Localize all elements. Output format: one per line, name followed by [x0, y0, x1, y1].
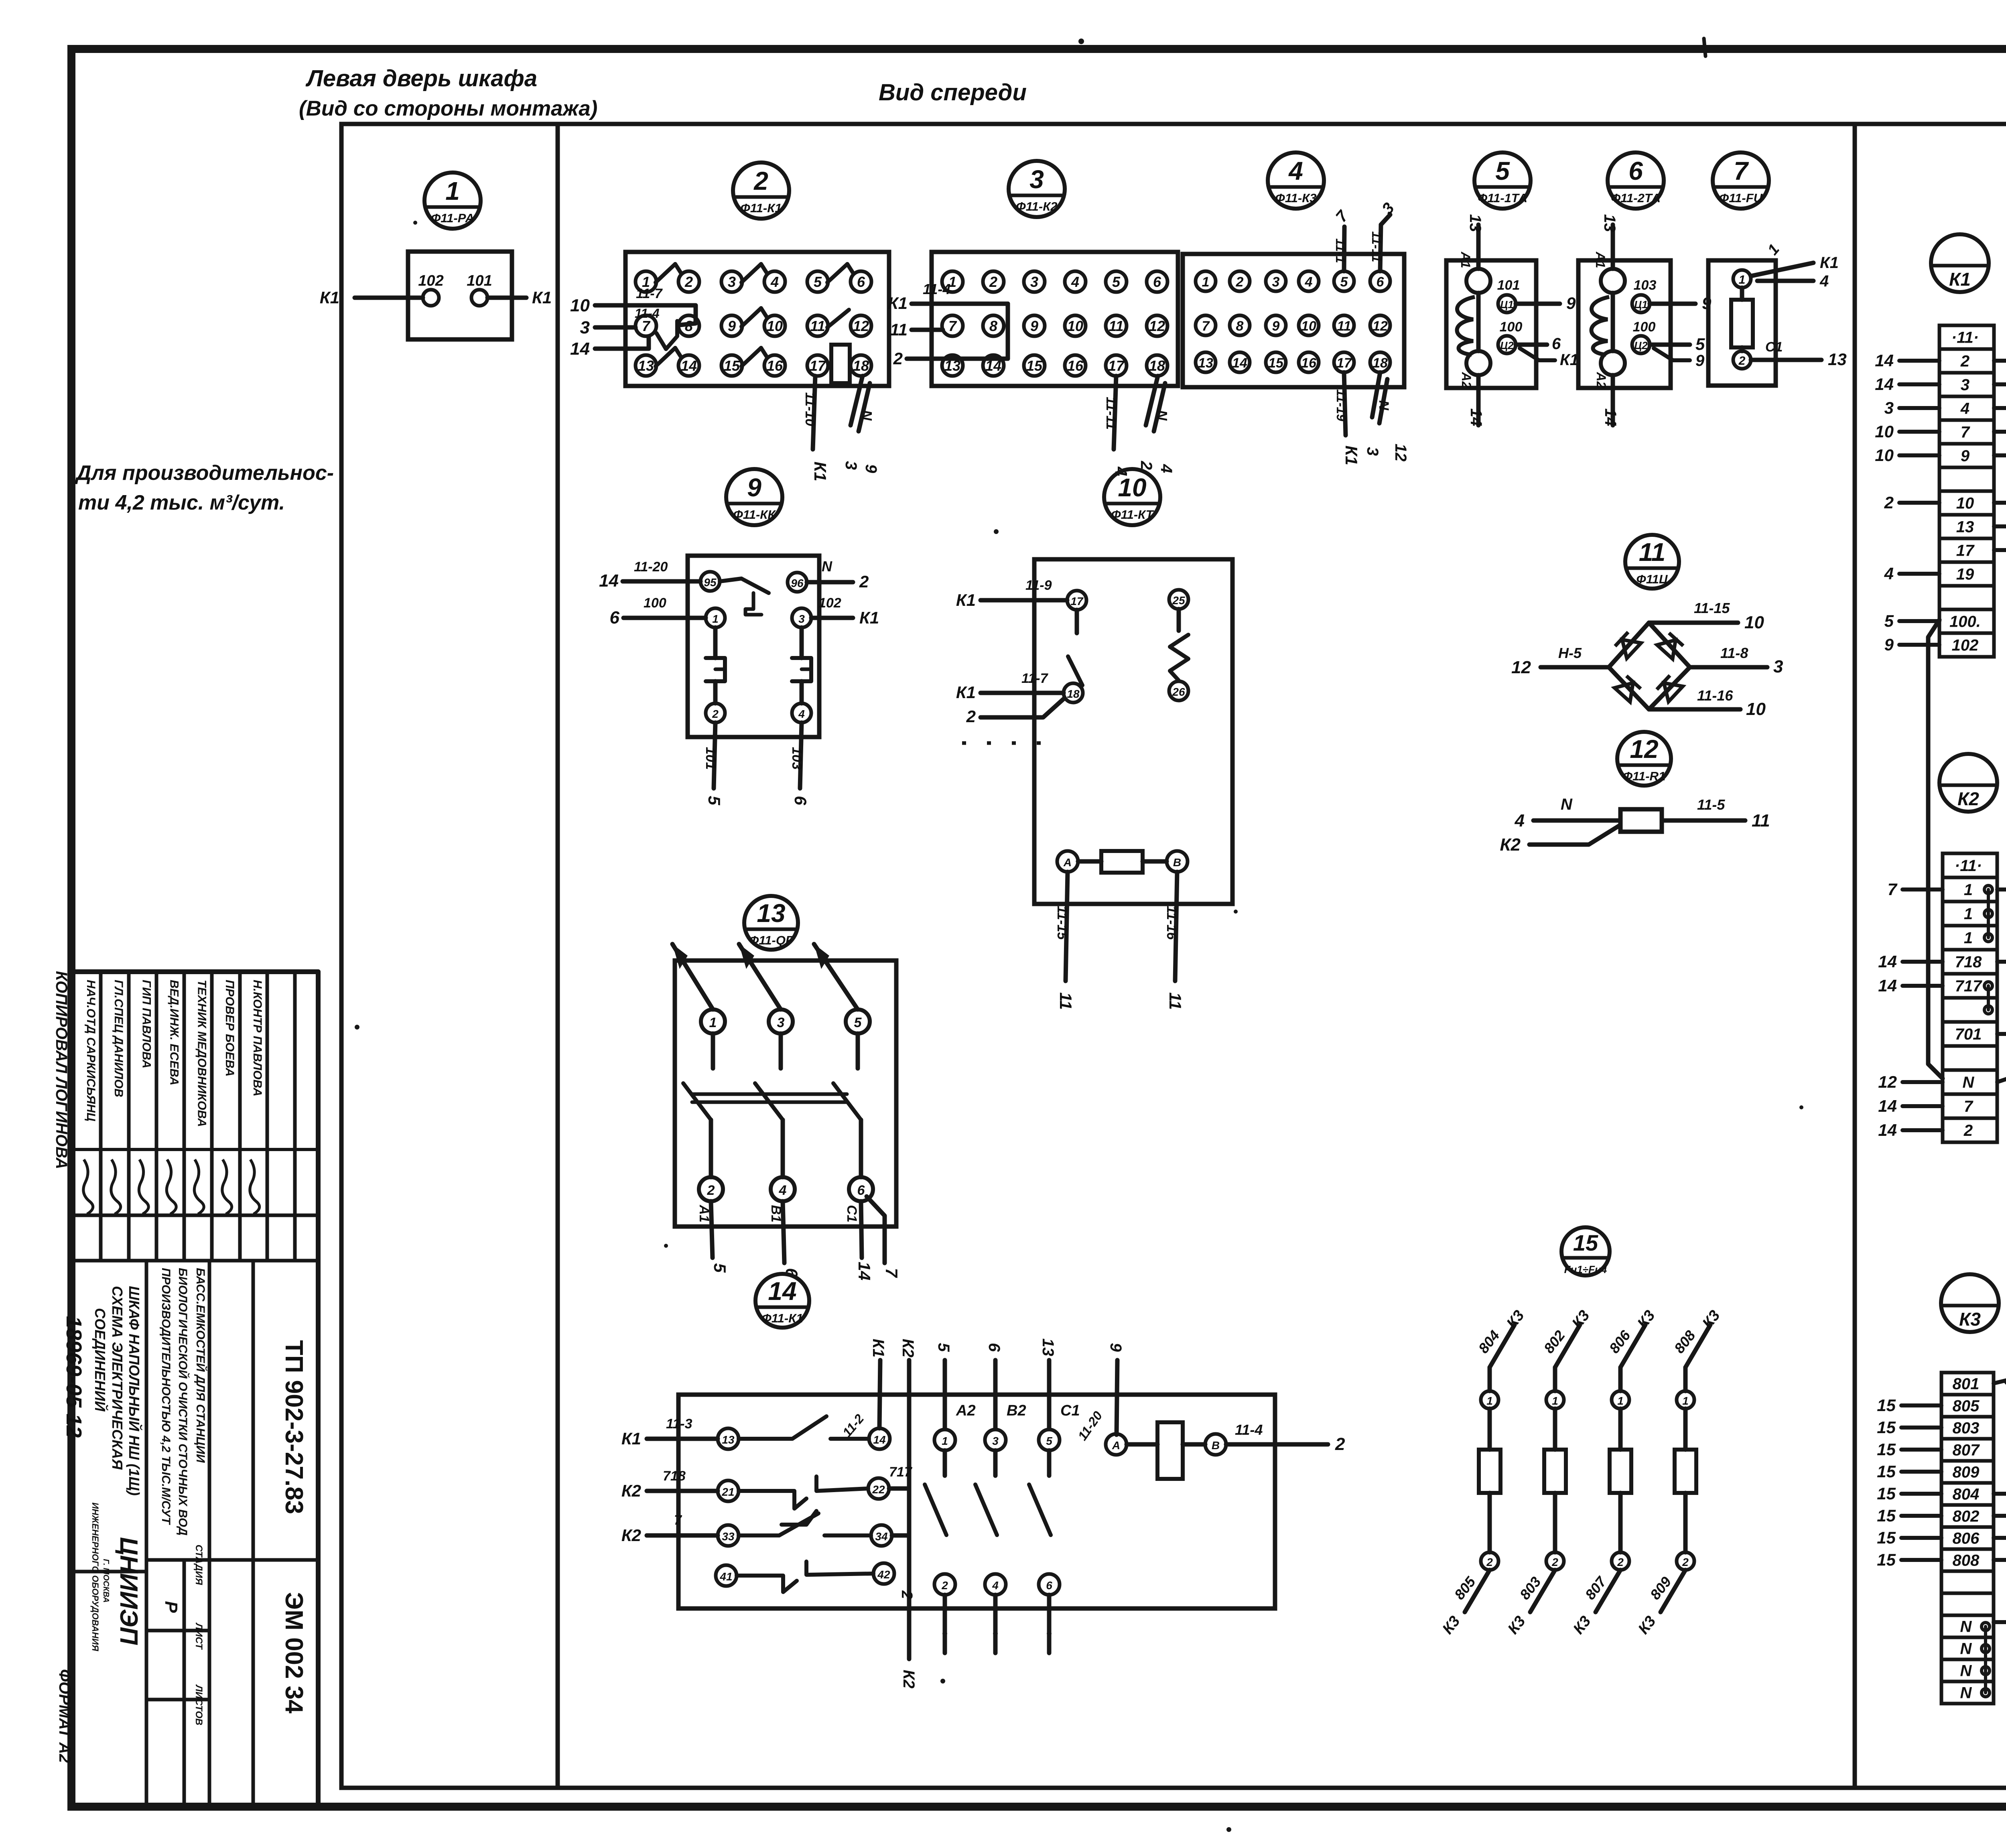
svg-text:ФОРМАТ А2: ФОРМАТ А2 [56, 1669, 73, 1763]
svg-text:3: 3 [1364, 447, 1381, 456]
svg-text:100.: 100. [1949, 613, 1981, 631]
bottom wires 11-15 / 11-16 to 11 [1066, 872, 1068, 981]
svg-text:13: 13 [1466, 214, 1484, 232]
bottom leads 101/5 and 103/6 [714, 723, 715, 788]
pin 18 [1064, 683, 1083, 703]
svg-text:103: 103 [789, 747, 804, 770]
terminal strip K1 [1939, 325, 1994, 657]
svg-text:2: 2 [1236, 274, 1244, 290]
pin 2 [706, 703, 725, 723]
svg-text:11: 11 [890, 320, 908, 339]
svg-text:17: 17 [1956, 542, 1975, 560]
bridge lead right 11-8 / 3 [1690, 665, 1767, 670]
contactor left leads [647, 1437, 718, 1441]
svg-text:ГЛ.СПЕЦ ДАНИЛОВ: ГЛ.СПЕЦ ДАНИЛОВ [112, 980, 125, 1097]
terminal Ц1 (103) to 9 [1632, 295, 1650, 313]
K3 strip left stubs (15) [1901, 1403, 1941, 1407]
relay socket 4 (Ф11-К3) designator [1268, 152, 1324, 209]
svg-text:15: 15 [1877, 1418, 1896, 1437]
terminal strip K1 designator [1931, 234, 1989, 292]
K3 N rows jumpers [1982, 1623, 1990, 1631]
svg-text:К1: К1 [1820, 254, 1839, 272]
pin 95 [700, 572, 720, 591]
terminal 102 [423, 290, 439, 306]
svg-text:16: 16 [767, 357, 783, 374]
scan speck [664, 1244, 668, 1248]
pin 26 [1169, 681, 1188, 701]
svg-text:13: 13 [1039, 1338, 1057, 1357]
svg-text:11-4: 11-4 [1235, 1422, 1263, 1438]
svg-text:12: 12 [1373, 319, 1388, 334]
svg-text:9: 9 [1030, 318, 1038, 334]
svg-text:14: 14 [1878, 952, 1897, 971]
svg-text:5: 5 [1046, 1435, 1052, 1447]
svg-text:Ф11-К1: Ф11-К1 [740, 201, 782, 215]
svg-text:2: 2 [1738, 354, 1746, 368]
thermal relay 9 body [688, 556, 819, 737]
svg-text:5: 5 [935, 1343, 952, 1352]
K2 N row to 16 / K3 [1997, 1074, 2006, 1082]
svg-text:С1: С1 [1060, 1402, 1080, 1419]
transformer 5 body [1446, 260, 1536, 388]
svg-text:12: 12 [1149, 318, 1165, 334]
poles 1 3 5 [701, 1009, 725, 1034]
svg-text:17: 17 [1070, 595, 1084, 607]
terminal 101 [471, 290, 487, 306]
svg-text:К3: К3 [1959, 1309, 1981, 1330]
fuse terminal 1 [1733, 270, 1751, 288]
svg-text:К1: К1 [320, 288, 339, 307]
svg-text:14: 14 [1878, 1121, 1897, 1139]
svg-text:9: 9 [1566, 294, 1576, 313]
rectifier 11 (Ф11Ц) designator [1625, 535, 1679, 589]
svg-text:11-20: 11-20 [634, 559, 668, 575]
svg-text:15: 15 [1877, 1462, 1896, 1481]
svg-text:10: 10 [1746, 699, 1766, 719]
svg-text:11: 11 [1337, 319, 1351, 334]
svg-text:Н.КОНТР ПАВЛОВА: Н.КОНТР ПАВЛОВА [251, 980, 264, 1097]
svg-text:N: N [859, 410, 875, 421]
relay socket 4 body [1183, 254, 1404, 387]
svg-text:15: 15 [1026, 357, 1043, 374]
svg-text:15: 15 [1877, 1396, 1896, 1415]
svg-text:5: 5 [1340, 274, 1348, 290]
winding arcs 6 [1592, 297, 1610, 355]
svg-text:4: 4 [1305, 274, 1313, 290]
svg-text:100: 100 [1633, 319, 1656, 335]
main panel outline [341, 124, 2006, 1788]
svg-text:4: 4 [1157, 464, 1175, 473]
svg-text:9: 9 [1961, 447, 1970, 465]
svg-text:4: 4 [1884, 564, 1894, 583]
svg-text:Ф11-РА: Ф11-РА [431, 211, 474, 225]
relay base 1 body [408, 252, 512, 339]
svg-text:7: 7 [1734, 156, 1749, 185]
fuse 808/809 [1685, 1325, 1710, 1367]
svg-text:18: 18 [853, 357, 869, 374]
fuse element [1731, 300, 1753, 347]
terminal Ц2 (100) to 5 and 9 [1632, 336, 1650, 353]
K3 right stubs [1994, 1492, 2006, 1496]
svg-text:9: 9 [1272, 319, 1280, 334]
svg-text:Fu1÷Fu4: Fu1÷Fu4 [1564, 1263, 1607, 1275]
relay socket 3 (Ф11-К2) designator [1009, 161, 1065, 217]
svg-text:КОПИРОВАЛ ЛОГИНОВА: КОПИРОВАЛ ЛОГИНОВА [53, 971, 70, 1169]
lower blades [683, 1083, 711, 1120]
svg-text:6: 6 [857, 1183, 865, 1198]
svg-text:5: 5 [1495, 156, 1510, 185]
linkage dashes [962, 741, 1043, 745]
pin A [1057, 851, 1078, 872]
svg-text:Ф11-КК: Ф11-КК [733, 508, 776, 522]
svg-text:6: 6 [985, 1343, 1003, 1352]
relay base 1 (Ф11-РА) designator [424, 173, 481, 229]
svg-text:11-4: 11-4 [635, 306, 660, 321]
svg-text:9: 9 [728, 318, 736, 334]
svg-text:14: 14 [1232, 355, 1247, 371]
svg-text:ЛИСТОВ: ЛИСТОВ [193, 1684, 204, 1726]
svg-text:10: 10 [1875, 422, 1894, 441]
svg-text:15: 15 [1877, 1550, 1896, 1569]
svg-text:701: 701 [1955, 1026, 1982, 1043]
svg-text:101: 101 [1497, 278, 1520, 293]
svg-text:808: 808 [1953, 1552, 1980, 1570]
breaker 13 body [675, 961, 896, 1227]
svg-text:11-10: 11-10 [802, 392, 818, 426]
svg-text:5: 5 [1112, 274, 1121, 290]
svg-text:ПРОИЗВОДИТЕЛЬНОСТЬЮ 4,2 ТЫС.М/: ПРОИЗВОДИТЕЛЬНОСТЬЮ 4,2 ТЫС.М/СУТ [159, 1268, 173, 1525]
svg-text:14: 14 [768, 1277, 796, 1306]
svg-text:ИНЖЕНЕРНОГО ОБОРУДОВАНИЯ: ИНЖЕНЕРНОГО ОБОРУДОВАНИЯ [90, 1503, 100, 1652]
svg-text:41: 41 [719, 1570, 732, 1583]
relay socket 2 body [625, 252, 889, 386]
title block bottom band [73, 1570, 146, 1574]
svg-text:10: 10 [1956, 495, 1974, 512]
svg-text:К1: К1 [869, 1339, 887, 1358]
svg-text:806: 806 [1953, 1530, 1980, 1547]
retard contact 25-26 [1177, 609, 1181, 631]
svg-text:4: 4 [1819, 272, 1829, 290]
winding arcs [1457, 297, 1475, 355]
svg-text:22: 22 [872, 1483, 885, 1496]
svg-text:К1: К1 [1949, 269, 1971, 290]
terminal strip K2 [1943, 853, 1997, 1142]
svg-text:ти 4,2 тыс. м³/сут.: ти 4,2 тыс. м³/сут. [78, 491, 285, 514]
wire K1 left to 102 [355, 296, 423, 300]
svg-text:1: 1 [1964, 881, 1973, 899]
svg-text:Ф11-QF: Ф11-QF [749, 933, 794, 947]
svg-text:7: 7 [1202, 319, 1210, 334]
svg-text:N: N [1376, 400, 1391, 411]
svg-text:15: 15 [1877, 1506, 1896, 1525]
svg-text:В: В [1173, 856, 1181, 869]
svg-text:Ц2: Ц2 [1500, 339, 1514, 351]
time relay 10 (Ф11-КТ) designator [1104, 469, 1160, 525]
svg-text:11: 11 [1056, 992, 1075, 1010]
svg-text:10: 10 [767, 318, 783, 334]
svg-text:3: 3 [992, 1435, 999, 1447]
svg-text:Ц1: Ц1 [1634, 299, 1647, 311]
7-8 changeover mark [656, 321, 677, 349]
scan speck [413, 221, 417, 225]
svg-text:3: 3 [1030, 274, 1038, 290]
svg-text:ШКАФ НАПОЛЬНЫЙ НШ (1Щ): ШКАФ НАПОЛЬНЫЙ НШ (1Щ) [126, 1286, 143, 1496]
K1 strip right stubs [1994, 359, 2006, 363]
svg-text:5: 5 [814, 274, 822, 290]
K2 jumper circles rows 5-6 [1984, 982, 1992, 990]
svg-text:2: 2 [1617, 1556, 1624, 1568]
svg-text:11-15: 11-15 [1054, 906, 1070, 940]
svg-text:101: 101 [467, 272, 492, 289]
svg-text:N: N [1960, 1662, 1972, 1680]
svg-text:К1: К1 [1560, 351, 1579, 369]
svg-text:К1: К1 [888, 294, 908, 313]
svg-text:2: 2 [707, 1183, 715, 1198]
svg-text:801: 801 [1953, 1375, 1980, 1393]
K2 strip right stubs [1997, 887, 2006, 892]
svg-text:9: 9 [1884, 635, 1894, 654]
svg-text:2: 2 [898, 1590, 915, 1599]
svg-text:В2: В2 [1007, 1402, 1026, 1419]
svg-text:7: 7 [1888, 880, 1898, 899]
svg-text:1: 1 [1552, 1395, 1558, 1407]
svg-text:11-8: 11-8 [1720, 645, 1748, 661]
fuse group 15 (Fu1÷Fu4) designator [1561, 1227, 1610, 1275]
svg-text:14: 14 [873, 1434, 886, 1446]
aux pins 41-42 [716, 1565, 737, 1586]
right lead 96 to N / 2 [807, 580, 853, 585]
svg-text:К2: К2 [621, 1526, 641, 1545]
right lead 3 to 102 / K1 [811, 616, 853, 620]
svg-text:15: 15 [1268, 355, 1284, 371]
svg-text:К1: К1 [621, 1429, 641, 1448]
svg-text:14: 14 [1875, 351, 1894, 370]
svg-text:11-16: 11-16 [1697, 687, 1733, 704]
svg-text:102: 102 [818, 595, 841, 611]
svg-text:14: 14 [599, 571, 619, 591]
svg-text:А: А [1063, 856, 1072, 869]
svg-text:3: 3 [1773, 657, 1783, 676]
svg-text:·11·: ·11· [1955, 857, 1982, 875]
relay socket 2 (Ф11-К1) designator [733, 162, 789, 219]
svg-text:18969-05 12: 18969-05 12 [62, 1316, 86, 1438]
bridge lead bottom 11-16 / 10 [1649, 707, 1740, 712]
svg-text:1: 1 [712, 613, 719, 625]
svg-text:6: 6 [1046, 1579, 1052, 1592]
svg-text:15: 15 [1573, 1230, 1598, 1255]
svg-text:807: 807 [1953, 1442, 1980, 1459]
svg-text:100: 100 [1500, 319, 1523, 335]
svg-text:ЛИСТ: ЛИСТ [193, 1623, 204, 1650]
svg-text:ЦНИИЭП: ЦНИИЭП [115, 1537, 142, 1645]
svg-text:К1: К1 [1342, 445, 1361, 465]
svg-text:7: 7 [674, 1513, 682, 1528]
svg-text:11: 11 [1166, 992, 1185, 1010]
svg-text:14: 14 [1878, 976, 1897, 995]
svg-text:N: N [1154, 410, 1170, 421]
svg-text:12: 12 [853, 318, 869, 334]
svg-text:8: 8 [989, 318, 997, 334]
time relay 10 body [1034, 559, 1232, 904]
svg-text:802: 802 [1953, 1508, 1980, 1525]
svg-text:2: 2 [966, 707, 976, 726]
svg-text:717: 717 [889, 1464, 913, 1480]
svg-text:14: 14 [855, 1262, 874, 1281]
svg-text:2: 2 [1551, 1556, 1558, 1568]
terminal Ц2 with wires [1498, 336, 1516, 353]
svg-text:14: 14 [570, 339, 590, 359]
svg-text:6: 6 [1377, 274, 1385, 290]
svg-text:17: 17 [1336, 355, 1352, 371]
svg-text:11-11: 11-11 [1369, 231, 1384, 262]
svg-text:3: 3 [1961, 376, 1969, 394]
pin 17 [1067, 591, 1086, 610]
svg-text:4: 4 [1288, 156, 1303, 185]
svg-text:К1: К1 [811, 461, 830, 481]
svg-text:21: 21 [721, 1486, 734, 1498]
svg-text:К1: К1 [956, 591, 976, 609]
svg-text:12: 12 [1511, 658, 1531, 677]
svg-text:К1: К1 [859, 608, 879, 627]
svg-text:1: 1 [445, 177, 460, 205]
wire 101 to K1 right [487, 296, 526, 300]
svg-text:Ф11-2ТА: Ф11-2ТА [1611, 191, 1661, 205]
terminal strip K3 designator [1941, 1274, 1999, 1332]
title block description area [145, 1261, 148, 1575]
K1 strip left stubs [1899, 359, 1939, 363]
svg-text:100: 100 [644, 595, 666, 611]
svg-text:13: 13 [757, 899, 785, 928]
svg-text:26: 26 [1172, 686, 1185, 698]
transformer 6 (Ф11-2ТА) designator [1608, 152, 1664, 209]
svg-text:15: 15 [724, 357, 740, 374]
svg-text:5: 5 [854, 1015, 862, 1030]
svg-text:3: 3 [1884, 398, 1894, 417]
svg-text:К2: К2 [621, 1481, 641, 1500]
svg-text:18: 18 [1373, 355, 1388, 371]
svg-text:5: 5 [705, 796, 724, 805]
svg-text:6: 6 [1153, 274, 1161, 290]
svg-text:Ф11-FU: Ф11-FU [1719, 191, 1763, 205]
svg-text:4: 4 [1960, 400, 1969, 418]
svg-text:Ф11Ц: Ф11Ц [1636, 572, 1668, 586]
svg-text:33: 33 [722, 1530, 735, 1543]
heater element right [792, 658, 811, 681]
svg-text:В: В [1212, 1439, 1220, 1452]
scan speck [1226, 1827, 1231, 1832]
svg-text:К2: К2 [1500, 835, 1521, 855]
svg-text:11: 11 [1109, 318, 1123, 334]
svg-text:10: 10 [1118, 473, 1146, 502]
svg-text:2: 2 [1960, 353, 1969, 370]
svg-text:Р: Р [161, 1601, 181, 1613]
svg-text:Г. МОСКВА: Г. МОСКВА [102, 1559, 110, 1602]
svg-text:НАЧ.ОТД САРКИСЬЯНЦ: НАЧ.ОТД САРКИСЬЯНЦ [84, 980, 97, 1121]
terminal Ц1 with wire to 9 [1498, 295, 1516, 313]
K2 strip left stubs [1902, 887, 1943, 892]
scan tick on top border [1704, 39, 1706, 56]
svg-text:6: 6 [1628, 156, 1643, 185]
svg-text:8: 8 [1236, 319, 1244, 334]
svg-text:N: N [1561, 796, 1573, 813]
svg-text:14: 14 [681, 357, 697, 374]
jumper wire from K1-100 to K2-N [1928, 620, 1943, 1078]
svg-text:7: 7 [1964, 1098, 1974, 1115]
divider left door / front view [556, 124, 560, 1788]
contact blades of socket 2 [656, 264, 675, 282]
svg-text:805: 805 [1953, 1397, 1980, 1415]
svg-text:2: 2 [1963, 1122, 1973, 1139]
svg-text:9: 9 [1107, 1343, 1125, 1352]
svg-text:18: 18 [1067, 688, 1080, 700]
scan speck [355, 1025, 359, 1030]
svg-text:ВЕД.ИНЖ. ЕСЕВА: ВЕД.ИНЖ. ЕСЕВА [168, 980, 181, 1085]
svg-text:13: 13 [1956, 518, 1974, 536]
contactor top leads K1 K2 [879, 1360, 880, 1428]
svg-text:6: 6 [610, 608, 620, 628]
relay socket 3 body [932, 252, 1178, 386]
svg-text:7: 7 [882, 1268, 901, 1278]
svg-text:18: 18 [1149, 357, 1165, 374]
svg-text:Вид спереди: Вид спереди [879, 79, 1027, 106]
coil rectangle [1101, 851, 1143, 873]
svg-text:1: 1 [1486, 1395, 1493, 1407]
svg-text:4: 4 [770, 274, 779, 290]
breaker blades with arrows [672, 944, 713, 1009]
svg-text:1: 1 [1964, 929, 1973, 947]
svg-text:2: 2 [989, 274, 997, 290]
svg-text:17: 17 [810, 357, 826, 374]
coil rectangle between 17-18 [831, 345, 850, 383]
svg-text:25: 25 [1172, 594, 1185, 607]
svg-text:К1: К1 [532, 288, 552, 307]
svg-text:1: 1 [1617, 1395, 1624, 1407]
svg-text:2: 2 [1884, 493, 1894, 512]
svg-text:17: 17 [1108, 357, 1125, 374]
contact blade 17-18 [1075, 610, 1079, 633]
fuse 802/803 [1555, 1325, 1580, 1367]
terminal strip K3 [1941, 1373, 1994, 1704]
svg-text:717: 717 [1955, 977, 1982, 995]
svg-text:13: 13 [1601, 214, 1618, 232]
transformer 5 (Ф11-1ТА) designator [1474, 152, 1531, 209]
svg-text:103: 103 [1634, 278, 1657, 293]
svg-text:34: 34 [875, 1530, 888, 1543]
thermal contact [720, 579, 741, 581]
svg-text:6: 6 [857, 274, 865, 290]
scan speck [1078, 39, 1084, 44]
svg-text:15: 15 [1877, 1484, 1896, 1503]
svg-text:11-15: 11-15 [1694, 600, 1730, 616]
svg-text:БАСС.ЕМКОСТЕЙ ДЛЯ СТАНЦИИ: БАСС.ЕМКОСТЕЙ ДЛЯ СТАНЦИИ [194, 1268, 208, 1463]
svg-text:·11·: ·11· [1951, 329, 1979, 347]
svg-text:10: 10 [1744, 613, 1764, 632]
svg-text:К2: К2 [1957, 788, 1979, 809]
svg-text:15: 15 [1877, 1440, 1896, 1459]
svg-text:15: 15 [1877, 1528, 1896, 1547]
svg-text:7: 7 [948, 318, 957, 334]
socket 4 top leads [1344, 227, 1344, 271]
svg-text:12: 12 [1392, 444, 1409, 462]
pin 4 [792, 703, 811, 723]
svg-text:Ф11-К1: Ф11-К1 [761, 1311, 803, 1325]
diode marks [1614, 632, 1641, 658]
svg-text:718: 718 [1955, 953, 1982, 971]
pin 3 [792, 608, 811, 628]
scan speck [940, 1679, 945, 1684]
svg-text:К2: К2 [900, 1670, 918, 1689]
contactor 14 (Ф11-К1) designator [755, 1274, 809, 1328]
